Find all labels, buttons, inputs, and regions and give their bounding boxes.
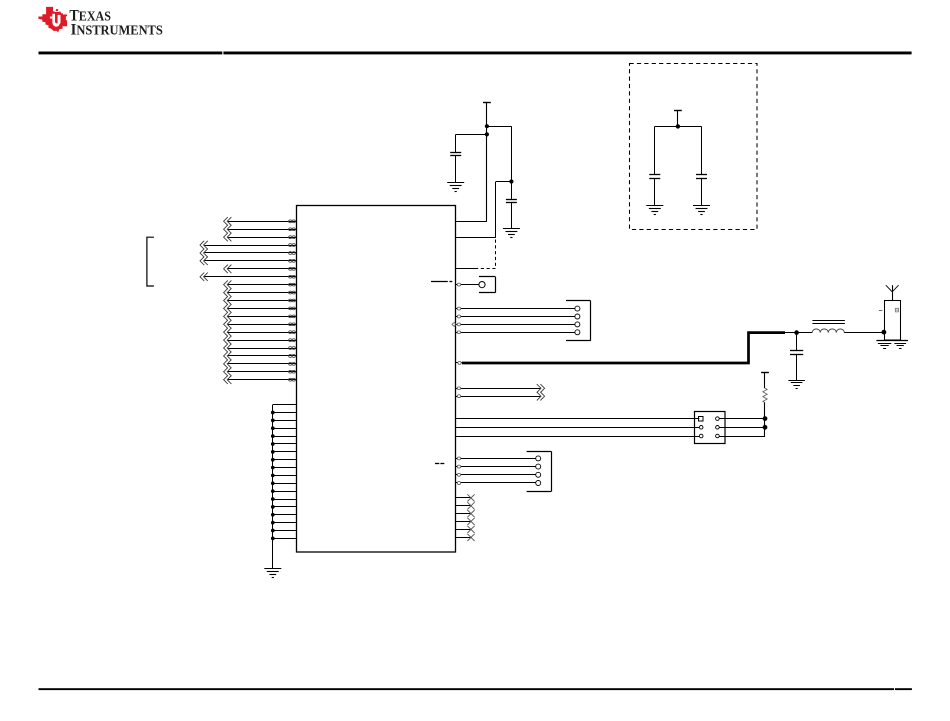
svg-text:INSTRUMENTS: INSTRUMENTS (71, 21, 163, 38)
